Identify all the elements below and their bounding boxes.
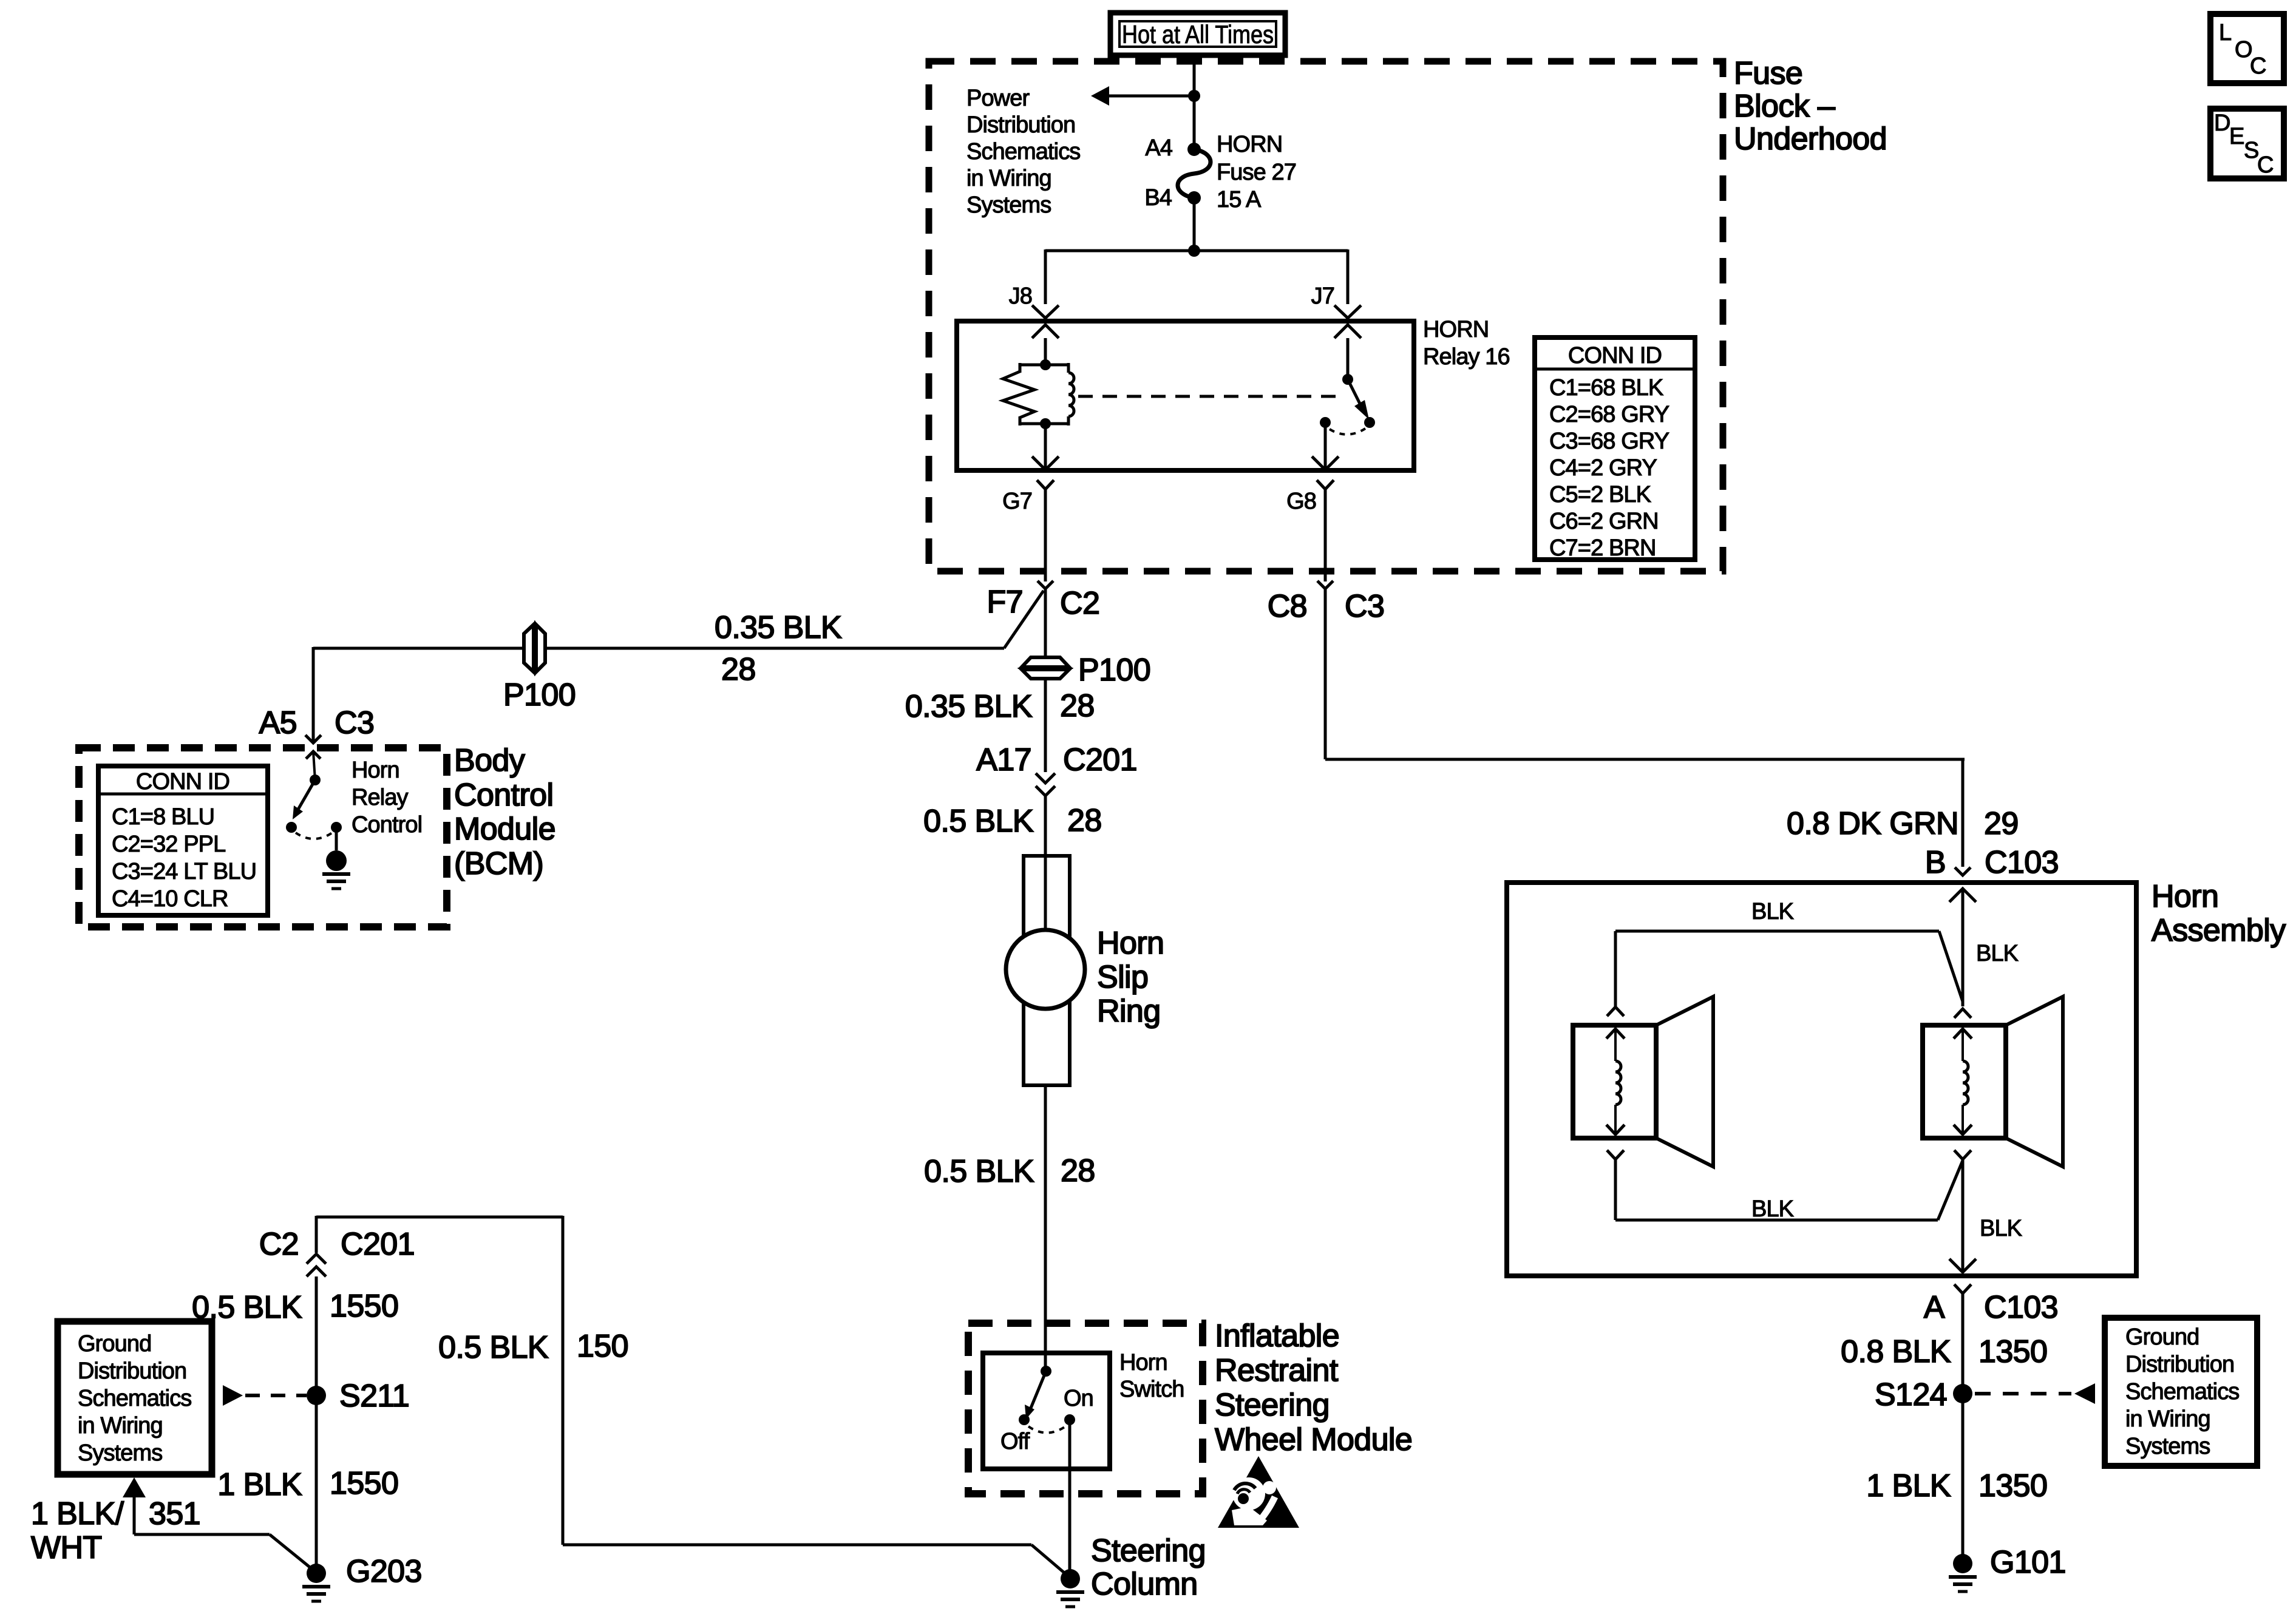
- horn assembly exit arrow: [1949, 1259, 1976, 1272]
- wire 0.5 BLK 28 to horn switch: [1044, 1085, 1047, 1371]
- svg-text:Column: Column: [1091, 1567, 1198, 1602]
- CONN ID table fuse block: [1535, 337, 1695, 560]
- svg-text:C1=8 BLU: C1=8 BLU: [112, 804, 214, 830]
- svg-text:351: 351: [149, 1496, 200, 1531]
- wire 0.8 BLK 1350: [1961, 1293, 1965, 1394]
- svg-text:1350: 1350: [1978, 1468, 2047, 1503]
- horn assembly box: [1507, 883, 2136, 1276]
- svg-text:C1=68 BLK: C1=68 BLK: [1549, 375, 1663, 401]
- svg-text:Assembly: Assembly: [2152, 913, 2286, 948]
- svg-text:C: C: [2250, 53, 2266, 79]
- svg-text:P100: P100: [503, 677, 576, 713]
- svg-text:CONN ID: CONN ID: [136, 769, 229, 795]
- wire BLK bottom loop: [1614, 1159, 1617, 1220]
- svg-text:in Wiring: in Wiring: [78, 1413, 163, 1439]
- svg-text:C5=2 BLK: C5=2 BLK: [1549, 482, 1651, 507]
- dashed reference from ground distribution left: [245, 1394, 307, 1397]
- inflatable restraint module dashed boundary: [968, 1323, 1203, 1494]
- fuse block dashed boundary: [929, 61, 1723, 571]
- wire BLK top loop: [1615, 930, 1939, 933]
- svg-text:C103: C103: [1984, 1290, 2058, 1325]
- fuse HORN Fuse 27 15 A: [1178, 149, 1211, 198]
- horn switch box: [983, 1353, 1110, 1469]
- connector C2 C201: [307, 1254, 326, 1264]
- svg-text:B4: B4: [1144, 185, 1172, 211]
- svg-text:0.35 BLK: 0.35 BLK: [715, 610, 842, 645]
- svg-text:29: 29: [1984, 806, 2019, 841]
- svg-text:Relay 16: Relay 16: [1423, 344, 1510, 370]
- svg-text:Hot at All Times: Hot at All Times: [1122, 20, 1274, 49]
- wire 0.5 BLK 28 to slip ring: [1044, 796, 1047, 930]
- BCM dashed boundary: [79, 748, 447, 927]
- svg-text:WHT: WHT: [31, 1530, 102, 1565]
- svg-text:G7: G7: [1002, 489, 1032, 514]
- svg-text:C3=24 LT BLU: C3=24 LT BLU: [112, 859, 256, 884]
- svg-text:Distribution: Distribution: [2125, 1352, 2234, 1377]
- svg-text:Schematics: Schematics: [2125, 1379, 2239, 1405]
- horn slip ring: [1024, 856, 1070, 1085]
- svg-text:Ground: Ground: [78, 1331, 151, 1357]
- svg-text:C2=32 PPL: C2=32 PPL: [112, 832, 225, 857]
- wire 0.8 DK GRN 29: [1324, 589, 1327, 759]
- ground steering column: [1061, 1569, 1080, 1588]
- svg-text:Systems: Systems: [2125, 1434, 2210, 1459]
- svg-text:15 A: 15 A: [1217, 187, 1262, 212]
- wire battery feed from Hot at All Times: [1193, 55, 1196, 149]
- junction node relay feed split: [1188, 245, 1200, 257]
- connector A17 C201: [1036, 773, 1055, 783]
- svg-text:L: L: [2219, 20, 2231, 46]
- right horn: [1954, 1009, 1971, 1018]
- svg-text:S124: S124: [1875, 1377, 1947, 1412]
- svg-text:0.5 BLK: 0.5 BLK: [924, 1154, 1034, 1189]
- svg-text:S211: S211: [339, 1378, 409, 1414]
- svg-text:0.8 DK GRN: 0.8 DK GRN: [1787, 806, 1958, 841]
- connector F7 C2: [1038, 581, 1053, 589]
- wire 0.35 BLK 28 below F7: [1044, 589, 1047, 658]
- svg-text:1 BLK: 1 BLK: [217, 1467, 302, 1502]
- svg-text:C2: C2: [259, 1227, 299, 1262]
- svg-text:Body: Body: [454, 743, 525, 778]
- svg-text:0.5 BLK: 0.5 BLK: [438, 1330, 549, 1365]
- svg-text:Schematics: Schematics: [966, 139, 1080, 164]
- dashed reference to ground distribution: [1975, 1392, 2071, 1395]
- svg-text:BLK: BLK: [1751, 899, 1794, 924]
- svg-text:Relay: Relay: [352, 785, 409, 810]
- svg-text:in Wiring: in Wiring: [966, 166, 1051, 191]
- svg-text:P100: P100: [1078, 653, 1150, 688]
- wire 0.5 BLK 150 riser: [316, 1216, 563, 1219]
- svg-text:C7=2 BRN: C7=2 BRN: [1549, 535, 1656, 561]
- wire fuse output: [1193, 198, 1196, 251]
- svg-text:Distribution: Distribution: [966, 112, 1075, 138]
- wire 0.5 BLK 1550: [315, 1276, 318, 1564]
- svg-text:C201: C201: [1063, 742, 1137, 778]
- svg-text:F7: F7: [987, 585, 1023, 620]
- svg-text:Distribution: Distribution: [78, 1358, 186, 1384]
- svg-text:Horn: Horn: [1119, 1350, 1167, 1375]
- svg-text:BLK: BLK: [1976, 941, 2019, 966]
- svg-text:0.8 BLK: 0.8 BLK: [1841, 1334, 1951, 1369]
- legend box DESC: [2210, 109, 2284, 178]
- svg-text:1550: 1550: [330, 1289, 398, 1324]
- svg-text:Power: Power: [966, 86, 1030, 111]
- connector J7: [1334, 305, 1361, 318]
- ground inside BCM: [335, 827, 338, 850]
- relay pin J7 entry arrow: [1347, 338, 1350, 379]
- ground G203: [307, 1564, 326, 1583]
- svg-text:C2=68 GRY: C2=68 GRY: [1549, 402, 1669, 427]
- wire 1 BLK 1350: [1961, 1394, 1965, 1554]
- relay switch: [1342, 374, 1353, 385]
- svg-text:Systems: Systems: [78, 1440, 162, 1466]
- connector J8: [1032, 305, 1059, 318]
- svg-text:Ring: Ring: [1097, 994, 1161, 1029]
- svg-text:HORN: HORN: [1217, 132, 1282, 157]
- wire horn switch to steering column ground: [1068, 1420, 1072, 1570]
- connector G7: [1037, 480, 1054, 489]
- svg-text:28: 28: [1061, 1153, 1095, 1188]
- svg-text:1550: 1550: [330, 1466, 398, 1501]
- legend box LOC: [2210, 14, 2284, 83]
- svg-text:C8: C8: [1268, 589, 1307, 624]
- Ground Distribution box right: [2105, 1318, 2257, 1466]
- CONN ID table BCM: [98, 766, 268, 915]
- svg-text:Horn: Horn: [2152, 879, 2218, 914]
- junction node power distribution tap: [1188, 90, 1200, 102]
- svg-text:E: E: [2229, 124, 2244, 149]
- svg-text:C2: C2: [1060, 586, 1099, 621]
- relay dashed actuating link: [1078, 395, 1340, 398]
- svg-text:Schematics: Schematics: [78, 1386, 191, 1411]
- svg-text:Control: Control: [352, 812, 422, 838]
- splice S211: [307, 1386, 326, 1405]
- svg-text:B: B: [1925, 845, 1946, 880]
- svg-text:Restraint: Restraint: [1215, 1353, 1339, 1388]
- svg-text:C3=68 GRY: C3=68 GRY: [1549, 429, 1669, 454]
- svg-text:(BCM): (BCM): [454, 846, 543, 881]
- svg-text:J7: J7: [1311, 283, 1334, 309]
- svg-text:150: 150: [577, 1329, 628, 1364]
- svg-text:Control: Control: [454, 778, 553, 813]
- BCM horn relay control switch: [306, 751, 321, 759]
- svg-text:D: D: [2214, 110, 2230, 136]
- relay pin G8 exit arrow: [1324, 422, 1327, 469]
- svg-text:Systems: Systems: [966, 192, 1051, 218]
- svg-text:S: S: [2244, 138, 2258, 163]
- svg-text:Horn: Horn: [352, 758, 399, 783]
- svg-text:C3: C3: [1345, 589, 1384, 624]
- svg-text:G101: G101: [1990, 1545, 2066, 1580]
- svg-text:BLK: BLK: [1980, 1216, 2022, 1241]
- Ground Distribution box left: [58, 1321, 212, 1474]
- svg-text:28: 28: [721, 652, 756, 687]
- connector G8: [1317, 480, 1334, 489]
- svg-text:1350: 1350: [1978, 1334, 2047, 1369]
- svg-text:28: 28: [1067, 803, 1102, 838]
- svg-text:A: A: [1924, 1290, 1945, 1325]
- relay pin G7 exit arrow: [1044, 424, 1047, 469]
- svg-text:Slip: Slip: [1097, 960, 1148, 995]
- svg-text:C103: C103: [1985, 845, 2059, 880]
- svg-text:Steering: Steering: [1215, 1388, 1330, 1423]
- svg-text:Switch: Switch: [1119, 1377, 1184, 1402]
- svg-text:0.5 BLK: 0.5 BLK: [923, 804, 1034, 839]
- svg-text:Horn: Horn: [1097, 926, 1164, 961]
- svg-text:CONN ID: CONN ID: [1568, 343, 1662, 368]
- svg-text:C: C: [2257, 152, 2274, 178]
- svg-text:G203: G203: [346, 1554, 422, 1589]
- connector A C103: [1954, 1284, 1971, 1293]
- svg-text:Block –: Block –: [1734, 89, 1835, 124]
- svg-text:C3: C3: [335, 705, 374, 741]
- svg-text:1 BLK: 1 BLK: [1866, 1468, 1951, 1503]
- svg-text:in Wiring: in Wiring: [2125, 1406, 2210, 1432]
- connector B C103: [1955, 867, 1971, 875]
- wire BCM horn relay control 0.35 BLK 28: [313, 647, 1004, 650]
- horn assembly feed arrow: [1949, 889, 1976, 902]
- svg-text:J8: J8: [1009, 283, 1032, 309]
- splice S124: [1953, 1384, 1972, 1403]
- svg-text:Ground: Ground: [2125, 1324, 2199, 1350]
- connector C8 C3: [1317, 581, 1333, 589]
- wire split to J8 and J7: [1045, 249, 1348, 253]
- svg-text:A5: A5: [259, 705, 297, 741]
- wire to power distribution schematics: [1109, 95, 1194, 98]
- svg-text:1 BLK/: 1 BLK/: [31, 1496, 124, 1531]
- svg-text:C4=2 GRY: C4=2 GRY: [1549, 455, 1657, 481]
- relay box HORN Relay 16: [957, 321, 1414, 470]
- connector A5 C3: [305, 735, 321, 743]
- svg-text:Off: Off: [1000, 1429, 1030, 1454]
- svg-text:28: 28: [1060, 688, 1095, 724]
- svg-text:C201: C201: [341, 1227, 415, 1262]
- svg-text:Fuse: Fuse: [1734, 56, 1802, 91]
- airbag warning triangle: [1218, 1456, 1299, 1528]
- left horn: [1607, 1007, 1624, 1016]
- relay pin J8 entry arrow: [1044, 338, 1047, 365]
- svg-text:BLK: BLK: [1751, 1196, 1794, 1222]
- wire 1 BLK/WHT 351 to G203: [123, 1477, 146, 1497]
- svg-text:C4=10 CLR: C4=10 CLR: [112, 886, 228, 912]
- power feed box Hot at All Times: [1110, 13, 1285, 55]
- svg-text:On: On: [1064, 1386, 1093, 1411]
- svg-text:HORN: HORN: [1423, 317, 1489, 342]
- inline connector P100 left: [524, 625, 534, 672]
- svg-text:A4: A4: [1145, 135, 1172, 161]
- svg-text:Underhood: Underhood: [1734, 121, 1887, 157]
- svg-text:Fuse 27: Fuse 27: [1217, 160, 1296, 185]
- svg-text:G8: G8: [1286, 489, 1316, 514]
- svg-text:Module: Module: [454, 812, 555, 847]
- relay coil and resistor: [1040, 359, 1051, 370]
- svg-text:Inflatable: Inflatable: [1215, 1318, 1339, 1354]
- svg-text:A17: A17: [976, 742, 1031, 778]
- svg-text:C6=2 GRN: C6=2 GRN: [1549, 509, 1659, 534]
- svg-text:0.35 BLK: 0.35 BLK: [905, 689, 1033, 724]
- svg-text:Steering: Steering: [1091, 1533, 1206, 1568]
- arrow to power distribution: [1091, 86, 1109, 106]
- horn switch: [1041, 1366, 1051, 1377]
- wire to C2 C201: [315, 1216, 318, 1253]
- svg-text:Wheel Module: Wheel Module: [1215, 1422, 1412, 1457]
- ground G101: [1953, 1554, 1972, 1573]
- inline connector P100: [1022, 657, 1069, 667]
